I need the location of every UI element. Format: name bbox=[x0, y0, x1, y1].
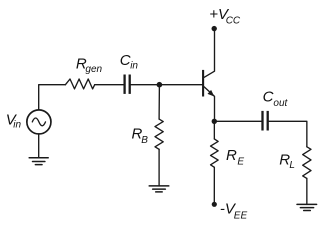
node B (emitter junction dot) bbox=[212, 119, 217, 124]
svg-text:in: in bbox=[13, 119, 21, 130]
wire Rgen to Cin bbox=[95, 84, 124, 86]
svg-text:gen: gen bbox=[85, 64, 102, 75]
wire RE to -VEE terminal bbox=[213, 167, 215, 204]
transistor Q1 base bar bbox=[202, 70, 204, 97]
wire Vin top to Rgen bbox=[39, 85, 66, 110]
label Vin bbox=[6, 111, 22, 130]
wire Cin to base bbox=[131, 84, 202, 86]
label RB bbox=[132, 125, 149, 146]
svg-text:R: R bbox=[226, 147, 237, 164]
wire Cout to RL bbox=[269, 121, 307, 147]
label Cin bbox=[120, 52, 139, 72]
label RL bbox=[279, 151, 295, 171]
wire Vin bottom to ground bbox=[38, 134, 40, 158]
ground (below RB) bbox=[149, 186, 169, 192]
svg-text:B: B bbox=[141, 135, 148, 146]
resistor RE bbox=[211, 139, 219, 167]
transistor Q1 emitter arrow bbox=[208, 90, 215, 97]
wire RB to ground bbox=[158, 149, 160, 186]
wire emitter node to Cout bbox=[214, 120, 261, 122]
resistor RB bbox=[155, 119, 163, 149]
capacitor Cout bbox=[263, 111, 268, 131]
svg-text:E: E bbox=[237, 157, 244, 168]
ground (below Vin) bbox=[29, 158, 48, 165]
svg-text:EE: EE bbox=[234, 210, 248, 221]
wire emitter node to RE bbox=[213, 121, 215, 139]
label +VCC bbox=[209, 6, 241, 27]
transistor Q1 collector bbox=[204, 31, 214, 77]
sine symbol inside V1 bbox=[32, 118, 45, 126]
resistor RL bbox=[303, 147, 311, 179]
source V1 (Vin sine source circle) bbox=[27, 110, 51, 134]
svg-text:C: C bbox=[120, 52, 131, 69]
svg-text:C: C bbox=[263, 89, 274, 106]
svg-text:in: in bbox=[130, 60, 138, 71]
wire node A to RB bbox=[158, 85, 160, 119]
node A (junction dot base/RB) bbox=[157, 82, 163, 88]
label Rgen bbox=[76, 56, 103, 75]
svg-text:L: L bbox=[289, 160, 295, 171]
capacitor Cin bbox=[125, 75, 130, 94]
label Cout bbox=[263, 89, 289, 110]
label -VEE bbox=[220, 201, 248, 222]
resistor Rgen bbox=[65, 79, 94, 89]
transistor Q1 emitter bbox=[204, 87, 214, 121]
svg-text:out: out bbox=[273, 98, 288, 109]
terminal -VEE dot bbox=[212, 202, 217, 207]
wire RL to ground bbox=[306, 178, 308, 204]
svg-text:CC: CC bbox=[226, 15, 241, 26]
ground (below RL) bbox=[297, 204, 317, 210]
label RE bbox=[226, 147, 244, 168]
terminal +VCC dot bbox=[212, 26, 217, 31]
